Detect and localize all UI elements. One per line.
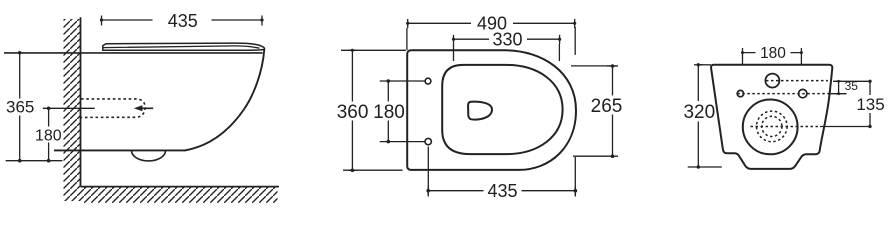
svg-text:435: 435 (168, 11, 198, 31)
svg-text:180: 180 (373, 102, 405, 123)
svg-text:320: 320 (683, 102, 715, 123)
svg-text:330: 330 (492, 30, 522, 50)
svg-text:435: 435 (487, 181, 517, 201)
svg-text:180: 180 (35, 128, 62, 145)
svg-text:135: 135 (856, 95, 884, 114)
svg-text:360: 360 (337, 102, 369, 123)
svg-text:365: 365 (6, 98, 34, 117)
svg-text:265: 265 (591, 96, 623, 117)
svg-text:180: 180 (760, 45, 786, 62)
svg-text:35: 35 (845, 79, 859, 93)
